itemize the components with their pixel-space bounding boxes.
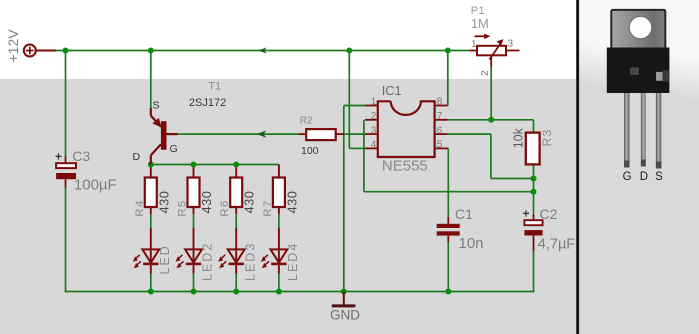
svg-text:S: S — [153, 100, 160, 112]
svg-text:NE555: NE555 — [382, 158, 428, 175]
svg-text:430: 430 — [156, 191, 171, 214]
svg-text:G: G — [623, 171, 632, 183]
svg-text:R4: R4 — [134, 199, 146, 216]
svg-text:GND: GND — [330, 307, 360, 322]
svg-text:+12V: +12V — [5, 29, 21, 63]
svg-text:S: S — [655, 171, 663, 183]
svg-text:4,7µF: 4,7µF — [538, 236, 576, 252]
svg-text:LED4: LED4 — [286, 242, 300, 281]
svg-text:+: + — [523, 207, 530, 221]
svg-text:D: D — [133, 151, 141, 163]
svg-text:C3: C3 — [72, 148, 90, 164]
svg-text:1: 1 — [371, 97, 377, 108]
svg-text:430: 430 — [284, 191, 299, 214]
svg-text:2: 2 — [480, 70, 491, 76]
svg-text:+: + — [55, 150, 62, 164]
svg-text:3: 3 — [371, 125, 377, 136]
svg-text:100µF: 100µF — [74, 177, 117, 194]
svg-text:1M: 1M — [471, 16, 489, 31]
svg-text:R7: R7 — [262, 199, 274, 216]
svg-text:3: 3 — [508, 39, 514, 50]
svg-text:100: 100 — [301, 145, 319, 157]
svg-text:5: 5 — [437, 140, 443, 151]
svg-text:R6: R6 — [219, 199, 231, 216]
svg-text:LED: LED — [158, 244, 172, 274]
svg-text:IC1: IC1 — [382, 83, 402, 98]
svg-text:430: 430 — [199, 191, 214, 214]
svg-text:1: 1 — [471, 39, 477, 50]
svg-text:7: 7 — [437, 111, 443, 122]
svg-text:C2: C2 — [540, 206, 558, 222]
svg-text:10k: 10k — [511, 127, 525, 148]
svg-text:6: 6 — [437, 125, 443, 136]
svg-text:LED2: LED2 — [201, 242, 215, 281]
svg-text:T1: T1 — [208, 81, 221, 93]
svg-text:10n: 10n — [459, 235, 484, 252]
svg-text:R5: R5 — [177, 199, 189, 216]
svg-text:8: 8 — [437, 97, 443, 108]
svg-text:2SJ172: 2SJ172 — [189, 97, 226, 109]
svg-text:2: 2 — [371, 111, 377, 122]
svg-text:LED3: LED3 — [243, 242, 257, 281]
svg-text:R3: R3 — [540, 128, 554, 146]
svg-text:D: D — [640, 171, 648, 183]
svg-text:G: G — [170, 143, 178, 155]
svg-text:430: 430 — [242, 191, 257, 214]
svg-text:C1: C1 — [455, 206, 473, 222]
svg-text:4: 4 — [371, 140, 377, 151]
svg-text:R2: R2 — [300, 116, 313, 127]
